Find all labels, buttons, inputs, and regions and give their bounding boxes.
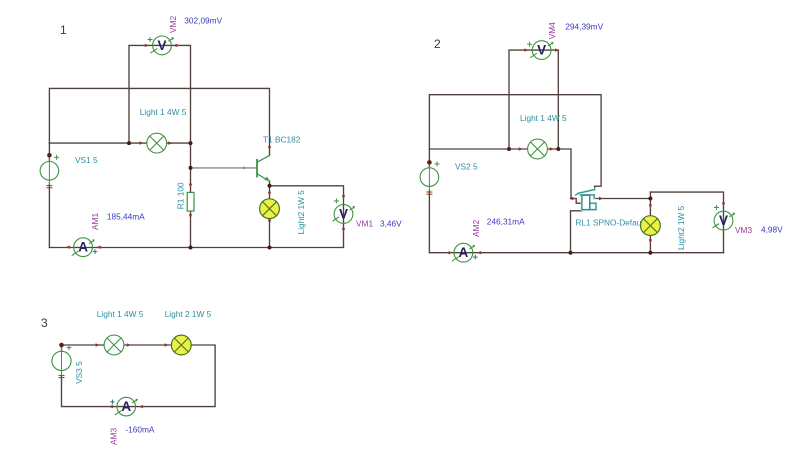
svg-text:V: V — [719, 213, 728, 228]
wire: circuit1 lamp row — [49, 142, 146, 144]
lamp Light2 circuit3 (yellow) — [171, 335, 191, 355]
svg-text:-160mA: -160mA — [125, 425, 155, 435]
lamp Light1 circuit3 — [104, 335, 124, 355]
svg-text:3,46V: 3,46V — [380, 219, 402, 229]
arrow: lamp row before lamp1 — [139, 141, 143, 144]
wire: base wire — [191, 167, 257, 169]
voltmeter VM1 — [333, 199, 355, 224]
arrow: yellow lamp c1 bottom — [268, 220, 271, 224]
svg-text:246,31mA: 246,31mA — [487, 217, 525, 227]
svg-text:Light 2 1W 5: Light 2 1W 5 — [165, 309, 212, 319]
arrow: yellow lamp c2 bottom — [649, 239, 652, 243]
ammeter AM3 — [111, 397, 138, 416]
arrow: VM4 right — [555, 48, 559, 51]
svg-text:2: 2 — [434, 37, 441, 51]
arrow: collector wire — [268, 146, 271, 150]
arrow: relay coil in — [572, 197, 576, 200]
svg-text:V: V — [157, 38, 166, 53]
arrow: yellow lamp c2 top — [649, 204, 652, 208]
arrow: VM4 left — [524, 48, 528, 51]
svg-text:RL1 SPNO-Default: RL1 SPNO-Default — [575, 218, 646, 228]
junction node: yellow lamp bottom rail — [268, 246, 272, 250]
junction node: lamp1 right / VM2 right — [189, 141, 193, 145]
svg-text:AM2: AM2 — [471, 220, 481, 237]
svg-text:AM3: AM3 — [109, 428, 119, 445]
svg-text:VS2 5: VS2 5 — [455, 162, 478, 172]
arrow: bottom rail right of AM1 — [97, 246, 101, 249]
wire: circuit2 bottom rail — [429, 252, 723, 254]
wire: VM1 branch — [270, 186, 344, 248]
ammeter AM2 — [453, 243, 478, 262]
svg-text:V: V — [537, 43, 546, 58]
svg-text:A: A — [459, 245, 469, 260]
wire: R1 column lower — [190, 211, 192, 248]
relay RL1 — [576, 190, 596, 210]
svg-text:T1 BC182: T1 BC182 — [263, 134, 301, 144]
wire: circuit1 left rail below VS1 — [48, 184, 50, 248]
arrow: VM1 bottom wire — [342, 228, 345, 232]
wire: circuit1 lamp row right — [167, 142, 191, 144]
voltage source VS1 — [40, 153, 59, 188]
wire: circuit1 left rail lower — [48, 143, 50, 161]
arrow: bottom rail right of AM2 — [477, 251, 481, 254]
wire: VM3 top wire — [650, 192, 723, 253]
wire: circuit2 left rail VS2 top — [428, 149, 430, 168]
lamp Light2 circuit1 (yellow) — [260, 199, 280, 219]
arrow: c3 bottom right of AM3 — [139, 405, 143, 408]
svg-text:4,98V: 4,98V — [761, 225, 783, 235]
svg-text:VM4: VM4 — [547, 22, 557, 39]
svg-text:185,44mA: 185,44mA — [107, 212, 145, 222]
wire: circuit3 top — [62, 344, 105, 346]
svg-text:AM1: AM1 — [90, 213, 100, 230]
voltmeter VM2 — [148, 36, 174, 55]
svg-text:294,39mV: 294,39mV — [565, 22, 603, 32]
junction node: c2 lamp right / VM4 right — [556, 147, 560, 151]
lamp Light1 circuit2 — [528, 139, 548, 159]
svg-text:1: 1 — [60, 23, 67, 37]
arrow: c3 top before lamp1 — [96, 343, 100, 346]
wire: circuit2 lamp row — [429, 148, 527, 150]
svg-text:A: A — [121, 399, 131, 414]
arrow: R1 bottom — [189, 214, 192, 218]
junction node: lamp2 bottom rail — [648, 251, 652, 255]
wire: relay output to lamp node — [596, 198, 650, 200]
wire: yellow lamp to bottom rail — [269, 219, 271, 248]
junction node: lamp1 left / VM2 left — [127, 141, 131, 145]
lamp Light1 circuit1 — [147, 133, 167, 153]
ammeter AM1 — [72, 238, 97, 257]
wire: lamp2 bottom — [649, 236, 651, 253]
wire: circuit2 top rail — [429, 95, 601, 190]
wire: circuit3 between lamps — [124, 344, 172, 346]
svg-text:Light 1 4W 5: Light 1 4W 5 — [520, 113, 567, 123]
svg-text:V: V — [339, 206, 348, 221]
wire: circuit2 left rail below VS2 — [428, 191, 430, 253]
svg-text:VM3: VM3 — [735, 225, 752, 235]
svg-text:VS3 5: VS3 5 — [74, 361, 84, 384]
wire: circuit1 top rail — [49, 88, 269, 155]
transistor T1 — [257, 156, 270, 182]
junction node: relay output lamp node — [648, 197, 652, 201]
wire: relay coil in jog — [571, 199, 582, 204]
resistor R1 — [187, 192, 194, 211]
arrow: c2 lamp row before lamp — [519, 147, 523, 150]
arrow: R1 top — [189, 184, 192, 188]
arrow: VM3 top wire — [722, 203, 725, 207]
lamp Light2 circuit2 (yellow) — [641, 216, 661, 236]
voltage source VS2 — [420, 160, 439, 194]
arrow: c3 before lamp2 — [165, 343, 169, 346]
svg-text:VS1 5: VS1 5 — [75, 155, 98, 165]
wire: light2 node vertical — [649, 192, 651, 216]
wire: relay coil out — [571, 211, 582, 253]
junction node: R1 bottom rail — [189, 246, 193, 250]
svg-text:3: 3 — [41, 316, 48, 330]
svg-text:Light2 1W 5: Light2 1W 5 — [676, 205, 686, 250]
svg-text:A: A — [78, 240, 88, 255]
svg-text:Light 1 4W 5: Light 1 4W 5 — [97, 309, 144, 319]
wire: circuit1 bottom rail — [49, 247, 343, 249]
arrow: VM2 left — [145, 44, 149, 47]
wire: circuit3 VS3 top stub — [61, 345, 63, 352]
svg-text:R1 100: R1 100 — [176, 182, 186, 209]
arrow: VM2 right — [176, 44, 180, 47]
wire: VM4 loop — [509, 50, 558, 149]
svg-text:302,09mV: 302,09mV — [184, 15, 222, 25]
voltage source VS3 — [52, 343, 71, 378]
svg-text:Light2 1W 5: Light2 1W 5 — [296, 190, 306, 235]
junction node: emitter branch — [268, 184, 272, 188]
wire: circuit3 right — [62, 345, 216, 407]
wire: circuit2 lamp row right — [547, 149, 571, 199]
voltmeter VM3 — [713, 206, 735, 231]
svg-text:VM1: VM1 — [356, 219, 373, 229]
wire: R1 column — [190, 143, 192, 192]
arrow: VM1 top wire — [342, 195, 345, 199]
voltmeter VM4 — [528, 41, 554, 60]
svg-text:Light 1 4W 5: Light 1 4W 5 — [140, 107, 187, 117]
arrow: relay output — [599, 197, 603, 200]
arrow: base wire — [243, 166, 247, 169]
junction node: base T — [189, 166, 193, 170]
arrow: yellow lamp c1 top — [268, 192, 271, 196]
wire: emitter down — [269, 181, 271, 199]
junction node: relay coil bottom rail — [569, 251, 573, 255]
arrow: bottom rail left of AM2 — [446, 251, 450, 254]
arrow: lamp row after lamp1 — [168, 141, 172, 144]
wire: VM2 loop — [129, 45, 191, 143]
svg-text:VM2: VM2 — [168, 16, 178, 33]
arrow: c3 bottom left of AM3 — [109, 405, 113, 408]
arrow: c2 lamp row after lamp — [550, 147, 554, 150]
arrow: c3 after lamp1 — [127, 343, 131, 346]
junction node: c2 lamp left / VM4 left — [507, 147, 511, 151]
arrow: bottom rail left of AM1 — [66, 246, 70, 249]
